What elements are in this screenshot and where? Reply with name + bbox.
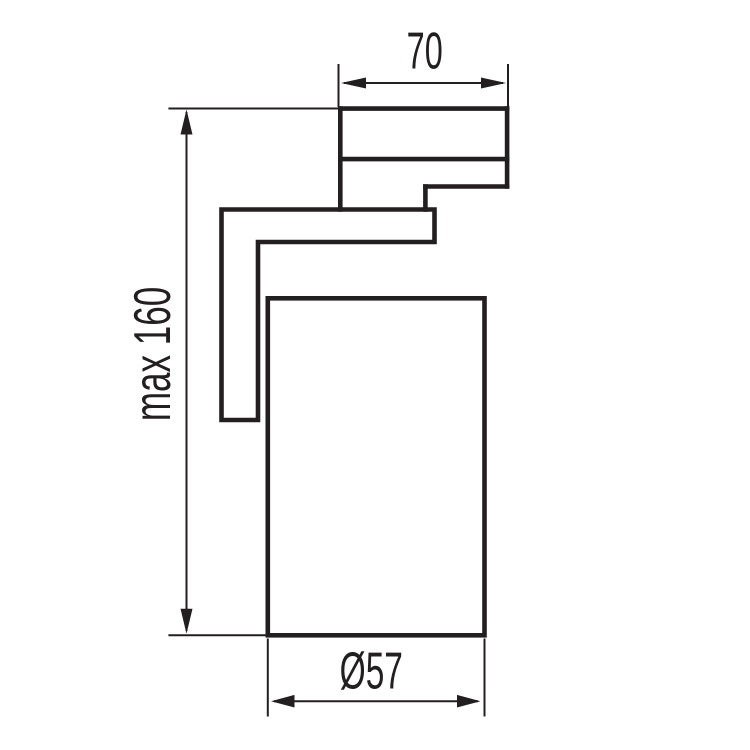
svg-text:70: 70 bbox=[407, 23, 443, 81]
track adapter top edge bbox=[338, 106, 509, 111]
track adapter step vertical edge bbox=[423, 184, 428, 212]
arrowhead dim 57 left bbox=[271, 695, 295, 708]
dimension line 70 bbox=[344, 82, 503, 84]
extension line right of dim 57 bbox=[484, 639, 486, 717]
extension line right of dim 70 bbox=[507, 64, 509, 107]
extension line left of dim 57 bbox=[267, 639, 269, 717]
extension line left of dim 70 bbox=[338, 64, 340, 107]
cylindrical lamp body bbox=[268, 298, 485, 635]
arrowhead dim 70 right bbox=[481, 78, 506, 89]
L-shaped mounting arm bracket bbox=[222, 210, 435, 421]
dimension line diameter 57 bbox=[274, 700, 478, 702]
svg-text:max 160: max 160 bbox=[124, 287, 182, 421]
track adapter left edge bbox=[338, 106, 343, 212]
track adapter step bottom edge bbox=[423, 184, 509, 189]
arrowhead dim 57 right bbox=[457, 695, 481, 708]
track adapter right edge bbox=[505, 106, 510, 189]
dimension line max 160 bbox=[186, 112, 188, 631]
arrowhead max 160 bottom bbox=[181, 609, 193, 634]
extension line bottom of max 160 bbox=[168, 634, 268, 636]
arrowhead max 160 top bbox=[181, 110, 193, 135]
track adapter mid line bbox=[338, 157, 509, 162]
svg-text:Ø57: Ø57 bbox=[340, 642, 403, 700]
arrowhead dim 70 left bbox=[341, 78, 366, 89]
extension line top of max 160 bbox=[168, 108, 340, 110]
